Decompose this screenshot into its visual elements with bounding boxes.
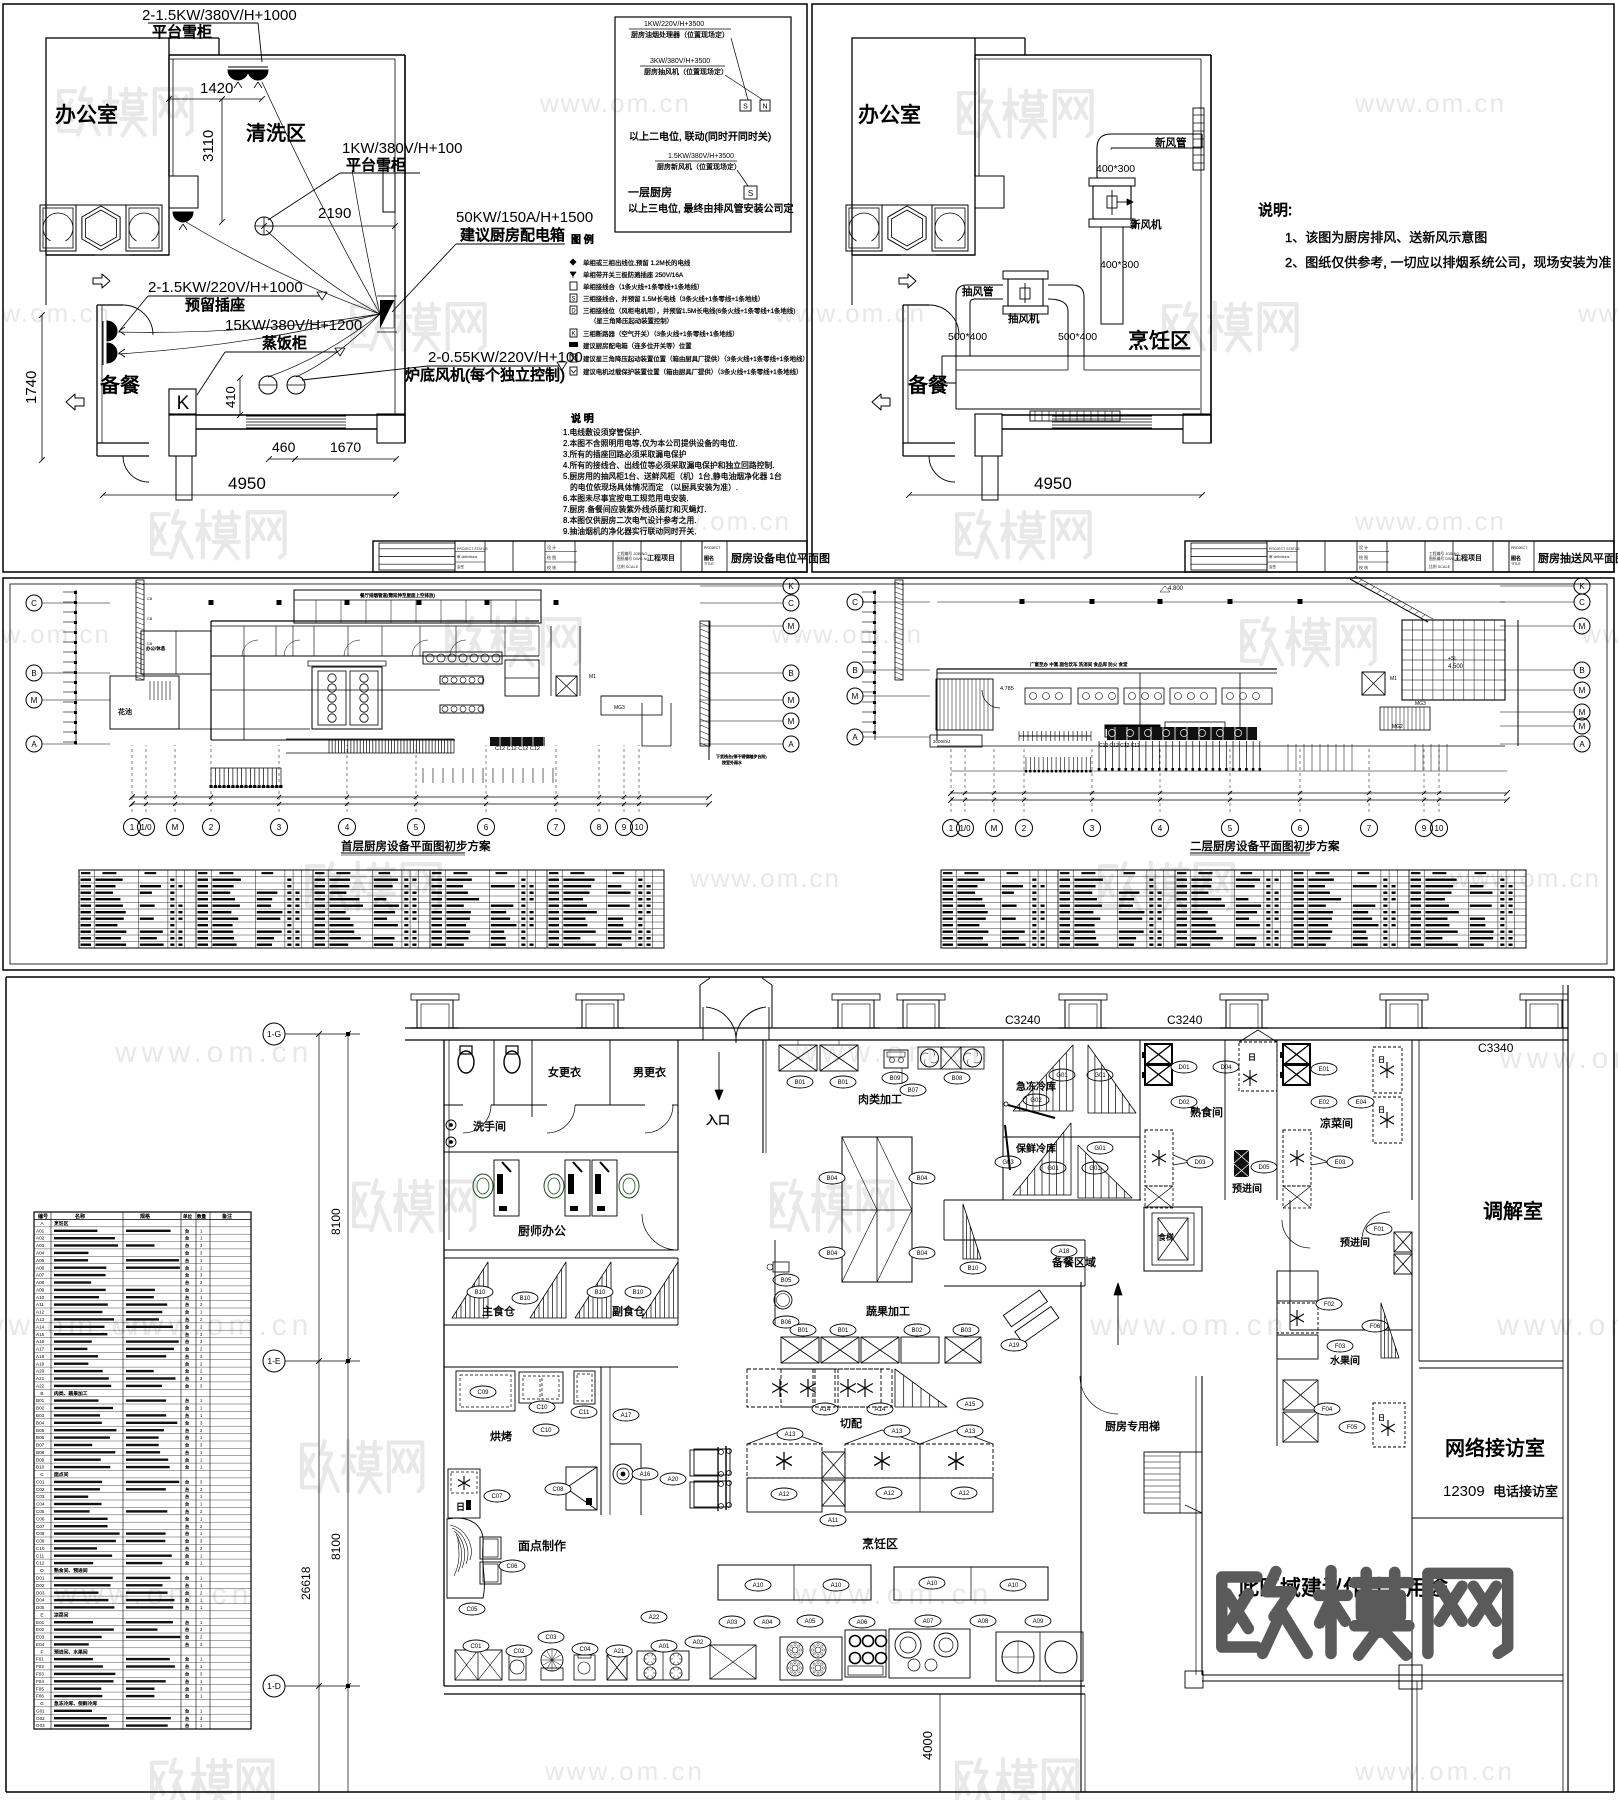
svg-text:厨师办公: 厨师办公	[518, 1223, 566, 1238]
svg-text:4950: 4950	[1034, 474, 1072, 493]
svg-text:A05: A05	[36, 1258, 45, 1263]
svg-text:图纸编号 DWG NO: 图纸编号 DWG NO	[617, 556, 649, 561]
svg-text:B10: B10	[595, 1290, 606, 1296]
svg-text:B04: B04	[917, 1176, 928, 1182]
svg-text:M: M	[31, 696, 38, 705]
svg-text:500*400: 500*400	[948, 331, 987, 343]
svg-text:三相接线合，并预留 1.5M长电线（3条火线+1条零线+1条: 三相接线合，并预留 1.5M长电线（3条火线+1条零线+1条地线）	[583, 294, 764, 303]
svg-text:台: 台	[185, 1309, 189, 1316]
svg-text:M1: M1	[589, 674, 596, 680]
svg-text:TITLE: TITLE	[704, 562, 714, 566]
svg-text:4950: 4950	[228, 474, 266, 493]
svg-text:洗手间: 洗手间	[473, 1119, 506, 1133]
svg-text:一层厨房: 一层厨房	[628, 186, 672, 199]
svg-text:1: 1	[949, 824, 954, 833]
svg-text:台: 台	[185, 1242, 189, 1249]
svg-text:F04: F04	[1322, 1407, 1333, 1413]
svg-text:B: B	[40, 1391, 43, 1397]
svg-text:A20: A20	[668, 1477, 679, 1483]
svg-text:A10: A10	[36, 1295, 45, 1300]
svg-text:台: 台	[185, 1604, 189, 1611]
svg-text:A18: A18	[1059, 1249, 1070, 1255]
svg-text:厨房抽风机（位置现场定）: 厨房抽风机（位置现场定）	[644, 67, 728, 76]
svg-text:首层厨房设备平面图初步方案: 首层厨房设备平面图初步方案	[341, 839, 491, 853]
svg-text:台: 台	[185, 1316, 189, 1323]
svg-text:台: 台	[185, 1331, 189, 1338]
svg-text:K: K	[1579, 582, 1585, 591]
svg-text:www.om.cn: www.om.cn	[1496, 1309, 1618, 1342]
svg-text:烘烤: 烘烤	[490, 1429, 512, 1443]
svg-text:G01: G01	[36, 1708, 45, 1713]
svg-text:凉菜间: 凉菜间	[54, 1611, 69, 1618]
svg-text:备餐区域: 备餐区域	[1052, 1255, 1096, 1269]
svg-text:花池: 花池	[118, 707, 132, 716]
svg-text:日: 日	[1248, 1053, 1256, 1062]
svg-text:www.om.cn: www.om.cn	[1089, 1309, 1288, 1342]
svg-text:2: 2	[209, 823, 214, 832]
svg-text:M: M	[788, 622, 795, 631]
svg-text:B10: B10	[968, 1266, 979, 1272]
svg-text:台: 台	[185, 1493, 189, 1500]
svg-text:C12 C12 C12 C12: C12 C12 C12 C12	[495, 746, 540, 752]
svg-text:G01: G01	[1089, 1166, 1101, 1172]
svg-text:办公/休息: 办公/休息	[146, 645, 166, 652]
svg-text:C10: C10	[540, 1428, 552, 1434]
svg-text:A13: A13	[785, 1432, 796, 1438]
svg-text:台: 台	[185, 1250, 189, 1257]
svg-text:B02: B02	[912, 1328, 923, 1334]
svg-text:A13: A13	[965, 1429, 976, 1435]
svg-text:数量: 数量	[197, 1213, 206, 1220]
svg-text:4.500: 4.500	[1448, 664, 1464, 670]
svg-text:下货栈台(带不锈钢踏步台阶): 下货栈台(带不锈钢踏步台阶)	[716, 753, 767, 759]
svg-text:E04: E04	[36, 1642, 45, 1647]
svg-text:审 definitions: 审 definitions	[457, 554, 477, 559]
svg-text:凉菜间: 凉菜间	[1320, 1116, 1353, 1130]
svg-text:500*400: 500*400	[1058, 331, 1097, 343]
svg-text:A09: A09	[36, 1287, 45, 1292]
svg-text:www.om.cn: www.om.cn	[1354, 506, 1506, 536]
svg-text:3.所有的插座回路必须采取漏电保护: 3.所有的插座回路必须采取漏电保护	[563, 449, 687, 459]
svg-text:B01: B01	[36, 1398, 45, 1403]
svg-text:C08: C08	[552, 1487, 564, 1493]
svg-text:M: M	[1579, 622, 1586, 631]
svg-text:E03: E03	[1335, 1160, 1346, 1166]
svg-text:男更衣: 男更衣	[633, 1065, 666, 1079]
svg-text:S: S	[748, 189, 753, 198]
svg-text:B04: B04	[917, 1251, 928, 1257]
svg-text:台: 台	[185, 1456, 189, 1463]
svg-text:1.5KW/380V/H+3500: 1.5KW/380V/H+3500	[668, 153, 734, 160]
svg-text:A03: A03	[727, 1620, 738, 1626]
svg-text:A14: A14	[36, 1324, 45, 1329]
svg-text:台: 台	[185, 1508, 189, 1515]
svg-text:F03: F03	[1335, 1344, 1346, 1350]
svg-text:A15: A15	[965, 1402, 976, 1408]
svg-text:台: 台	[185, 1286, 189, 1293]
svg-text:F01: F01	[1374, 1227, 1385, 1233]
svg-text:平台雪柜: 平台雪柜	[152, 24, 212, 41]
svg-text:A04: A04	[762, 1620, 773, 1626]
svg-text:MG3: MG3	[614, 705, 625, 711]
svg-text:A07: A07	[923, 1619, 934, 1625]
svg-text:9.抽油烟机的净化器实行联动同时开关.: 9.抽油烟机的净化器实行联动同时开关.	[563, 526, 696, 536]
svg-text:工程项目: 工程项目	[647, 553, 675, 562]
svg-text:C10: C10	[36, 1546, 45, 1551]
svg-text:12309: 12309	[1443, 1483, 1485, 1500]
svg-text:D: D	[40, 1568, 44, 1574]
svg-text:D04: D04	[36, 1598, 45, 1603]
svg-text:台: 台	[185, 1575, 189, 1582]
svg-text:1740: 1740	[23, 371, 40, 404]
svg-text:急冻冷库: 急冻冷库	[1016, 1080, 1056, 1093]
svg-text:会签: 会签	[1269, 564, 1277, 569]
svg-text:预进间: 预进间	[1232, 1182, 1262, 1195]
svg-text:A12: A12	[884, 1491, 895, 1497]
svg-text:B: B	[852, 666, 857, 675]
svg-text:台: 台	[185, 1346, 189, 1353]
svg-text:1.电线敷设须穿管保护.: 1.电线敷设须穿管保护.	[563, 427, 642, 437]
svg-text:1-G: 1-G	[267, 1029, 281, 1039]
svg-text:E04: E04	[1356, 1100, 1367, 1106]
svg-text:F06: F06	[36, 1694, 44, 1699]
svg-text:400*300: 400*300	[1100, 259, 1139, 271]
svg-text:C8: C8	[147, 616, 153, 621]
svg-text:3: 3	[277, 823, 282, 832]
svg-text:G01: G01	[1094, 1146, 1106, 1152]
svg-text:C09: C09	[477, 1390, 489, 1396]
svg-text:C01: C01	[470, 1644, 482, 1650]
svg-text:5: 5	[1228, 824, 1233, 833]
svg-text:4.800: 4.800	[1168, 586, 1184, 592]
svg-text:7: 7	[554, 823, 559, 832]
svg-text:M: M	[788, 717, 795, 726]
svg-text:D03: D03	[36, 1590, 45, 1595]
svg-text:F02: F02	[1324, 1302, 1335, 1308]
svg-text:7.厨房.备餐间应装紫外线杀菌灯和灭蝇灯.: 7.厨房.备餐间应装紫外线杀菌灯和灭蝇灯.	[563, 504, 706, 514]
svg-text:E03: E03	[36, 1635, 45, 1640]
svg-text:K: K	[571, 332, 575, 338]
svg-text:厨房专用梯: 厨房专用梯	[1105, 1419, 1160, 1433]
svg-text:D01: D01	[1178, 1065, 1190, 1071]
svg-text:D: D	[571, 309, 576, 315]
svg-text:400*300: 400*300	[1096, 163, 1135, 175]
svg-text:1420: 1420	[200, 80, 233, 97]
svg-text:台: 台	[185, 1663, 189, 1670]
svg-text:台: 台	[185, 1434, 189, 1441]
svg-text:C06: C06	[506, 1564, 518, 1570]
svg-text:B06: B06	[781, 1320, 792, 1326]
svg-text:A06: A06	[857, 1620, 868, 1626]
svg-text:绘 图: 绘 图	[547, 554, 556, 560]
svg-text:以上三电位, 最终由排风管安装公司定: 以上三电位, 最终由排风管安装公司定	[628, 202, 794, 215]
svg-text:名称: 名称	[75, 1213, 85, 1220]
svg-text:B10: B10	[633, 1290, 644, 1296]
svg-text:G: G	[40, 1701, 44, 1707]
svg-text:A: A	[1579, 740, 1585, 749]
svg-text:A11: A11	[828, 1518, 839, 1524]
svg-text:B03: B03	[36, 1413, 45, 1418]
svg-text:建议厨房配电箱（连多位开关等）位置: 建议厨房配电箱（连多位开关等）位置	[583, 341, 692, 350]
svg-text:台: 台	[185, 1383, 189, 1390]
svg-text:M: M	[1579, 722, 1586, 731]
svg-text:E01: E01	[36, 1620, 45, 1625]
svg-text:B07: B07	[36, 1443, 45, 1448]
svg-text:台: 台	[185, 1301, 189, 1308]
svg-text:F: F	[41, 1649, 44, 1655]
svg-text:台: 台	[185, 1264, 189, 1271]
svg-text:A06: A06	[36, 1265, 45, 1270]
svg-text:7: 7	[1367, 824, 1372, 833]
svg-text:炉底风机(每个独立控制): 炉底风机(每个独立控制)	[405, 367, 565, 384]
svg-text:D02: D02	[36, 1583, 45, 1588]
svg-text:G03: G03	[36, 1723, 45, 1728]
svg-text:切配: 切配	[840, 1417, 862, 1430]
svg-text:www.om.cn: www.om.cn	[1577, 298, 1618, 328]
svg-text:C02: C02	[36, 1487, 45, 1492]
svg-text:A13: A13	[892, 1429, 903, 1435]
svg-text:www.om.cn: www.om.cn	[1499, 1042, 1618, 1075]
svg-text:B01: B01	[838, 1080, 849, 1086]
svg-text:台: 台	[185, 1375, 189, 1382]
svg-text:台: 台	[185, 1678, 189, 1685]
svg-text:C02: C02	[513, 1649, 525, 1655]
svg-text:单相或三相出线位,预留 1.2M长的电线: 单相或三相出线位,预留 1.2M长的电线	[583, 258, 691, 267]
svg-text:C10: C10	[536, 1405, 548, 1411]
svg-text:D05: D05	[36, 1605, 45, 1610]
svg-text:S: S	[571, 297, 575, 303]
svg-text:2-0.55KW/220V/H+100: 2-0.55KW/220V/H+100	[428, 349, 583, 366]
svg-text:B04: B04	[827, 1251, 838, 1257]
svg-text:台: 台	[185, 1634, 189, 1641]
svg-text:B10: B10	[475, 1290, 486, 1296]
svg-text:C03: C03	[36, 1494, 45, 1499]
svg-text:副食仓: 副食仓	[612, 1304, 645, 1318]
svg-text:6.本图未尽事宜按电工规范用电安装.: 6.本图未尽事宜按电工规范用电安装.	[563, 493, 689, 503]
svg-text:F05: F05	[36, 1686, 44, 1691]
svg-text:工程项目: 工程项目	[1454, 553, 1482, 562]
svg-text:C06: C06	[36, 1516, 45, 1521]
svg-text:G02: G02	[1030, 1098, 1042, 1104]
svg-text:C11: C11	[579, 1410, 590, 1416]
svg-text:A13: A13	[36, 1317, 45, 1322]
svg-text:D03: D03	[1194, 1160, 1206, 1166]
svg-text:台: 台	[185, 1715, 189, 1722]
svg-text:以上二电位, 联动(同时开同时关): 以上二电位, 联动(同时开同时关)	[629, 130, 771, 143]
svg-text:1/0: 1/0	[959, 824, 971, 833]
svg-text:预进间: 预进间	[1340, 1236, 1370, 1249]
svg-text:B09: B09	[36, 1457, 45, 1462]
svg-text:A20: A20	[36, 1369, 45, 1374]
svg-text:建议电机过载保护装置位置（箱由厨具厂提供）（3条火线+1条零: 建议电机过载保护装置位置（箱由厨具厂提供）（3条火线+1条零线+1条地线）	[583, 367, 802, 376]
svg-text:PROJECT STATUS: PROJECT STATUS	[457, 547, 488, 551]
svg-text:E02: E02	[1319, 1100, 1330, 1106]
svg-text:A10: A10	[927, 1581, 938, 1587]
svg-text:规格: 规格	[140, 1213, 150, 1220]
svg-text:C08: C08	[36, 1531, 45, 1536]
svg-text:A14: A14	[875, 1407, 886, 1413]
svg-text:预进间、水果间: 预进间、水果间	[54, 1648, 88, 1655]
svg-text:B04: B04	[827, 1176, 838, 1182]
svg-text:A21: A21	[36, 1376, 45, 1381]
svg-text:备注: 备注	[222, 1213, 232, 1220]
svg-text:台: 台	[185, 1597, 189, 1604]
svg-text:N: N	[762, 104, 767, 111]
svg-text:MG2: MG2	[1392, 724, 1403, 730]
svg-text:1670: 1670	[330, 439, 361, 455]
svg-text:预留插座: 预留插座	[185, 297, 245, 314]
svg-text:A17: A17	[621, 1413, 632, 1419]
svg-text:熟食间、预进间: 熟食间、预进间	[54, 1567, 88, 1574]
svg-text:清洗区: 清洗区	[246, 122, 306, 145]
svg-text:三相断路器（空气开关）（3条火线+1条零线+1条地线）: 三相断路器（空气开关）（3条火线+1条零线+1条地线）	[583, 329, 739, 338]
svg-text:C09: C09	[36, 1539, 45, 1544]
svg-text:5.厨房用的抽风柜1台、送鲜风柜（机）1台,静电油烟净化器: 5.厨房用的抽风柜1台、送鲜风柜（机）1台,静电油烟净化器 1台	[563, 471, 782, 481]
svg-text:C04: C04	[579, 1647, 591, 1653]
svg-text:A18: A18	[36, 1354, 45, 1359]
svg-text:MG3: MG3	[1415, 701, 1426, 707]
svg-text:+SL: +SL	[1448, 656, 1457, 662]
svg-text:A10: A10	[831, 1583, 842, 1589]
svg-text:调解室: 调解室	[1483, 1200, 1543, 1223]
svg-text:急冻冷库、保鲜冷库: 急冻冷库、保鲜冷库	[54, 1700, 97, 1707]
svg-text:8.本图仅供厨房二次电气设计参考之用.: 8.本图仅供厨房二次电气设计参考之用.	[563, 515, 696, 525]
svg-text:台: 台	[185, 1412, 189, 1419]
svg-text:C: C	[788, 599, 794, 608]
svg-text:M: M	[172, 823, 179, 832]
svg-text:F04: F04	[36, 1679, 44, 1684]
svg-text:A07: A07	[36, 1273, 45, 1278]
svg-text:10: 10	[635, 823, 644, 832]
svg-text:A21: A21	[614, 1649, 625, 1655]
svg-text:台: 台	[185, 1464, 189, 1471]
svg-text:B: B	[31, 669, 36, 678]
svg-text:台: 台	[185, 1427, 189, 1434]
svg-text:B07: B07	[908, 1088, 919, 1094]
svg-text:5: 5	[414, 823, 419, 832]
svg-text:台: 台	[185, 1368, 189, 1375]
svg-text:单位: 单位	[183, 1213, 192, 1220]
svg-text:图名: 图名	[1511, 555, 1521, 562]
svg-text:台: 台	[185, 1449, 189, 1456]
svg-text:入口: 入口	[706, 1113, 730, 1127]
svg-text:A12: A12	[779, 1492, 790, 1498]
svg-text:B03: B03	[961, 1328, 972, 1334]
svg-text:设 计: 设 计	[1359, 544, 1368, 550]
svg-text:台: 台	[185, 1272, 189, 1279]
svg-text:B10: B10	[36, 1465, 45, 1470]
svg-text:单相带开关三极防溅插座 250V/16A: 单相带开关三极防溅插座 250V/16A	[583, 270, 684, 279]
svg-text:A: A	[852, 733, 858, 742]
svg-text:A05: A05	[805, 1619, 816, 1625]
svg-text:会签: 会签	[457, 564, 465, 569]
svg-text:6: 6	[484, 823, 489, 832]
svg-text:A19: A19	[1009, 1343, 1020, 1349]
svg-text:A15: A15	[36, 1332, 45, 1337]
svg-text:台: 台	[185, 1656, 189, 1663]
svg-text:台: 台	[185, 1552, 189, 1559]
svg-text:9: 9	[622, 823, 627, 832]
svg-text:台: 台	[185, 1619, 189, 1626]
svg-text:比例 SCALE: 比例 SCALE	[1429, 564, 1451, 569]
svg-text:台: 台	[185, 1419, 189, 1426]
svg-text:M1: M1	[1390, 676, 1397, 682]
svg-text:A01: A01	[659, 1644, 670, 1650]
svg-text:A16: A16	[36, 1339, 45, 1344]
svg-text:平台雪柜: 平台雪柜	[346, 157, 406, 174]
svg-text:B04: B04	[36, 1420, 45, 1425]
svg-text:A02: A02	[693, 1640, 704, 1646]
svg-text:B08: B08	[36, 1450, 45, 1455]
svg-text:C: C	[1579, 598, 1585, 607]
svg-text:M: M	[991, 824, 998, 833]
svg-text:C05: C05	[36, 1509, 45, 1514]
svg-text:建议厨房配电箱: 建议厨房配电箱	[460, 227, 565, 244]
svg-text:1-E: 1-E	[267, 1356, 281, 1366]
svg-text:C11: C11	[36, 1553, 45, 1558]
svg-text:15KW/380V/H+1200: 15KW/380V/H+1200	[225, 317, 362, 334]
svg-text:台: 台	[185, 1257, 189, 1264]
svg-text:A19: A19	[36, 1361, 45, 1366]
svg-text:熟食间: 熟食间	[1190, 1105, 1223, 1119]
svg-text:M: M	[1579, 686, 1586, 695]
svg-text:A08: A08	[36, 1280, 45, 1285]
svg-text:台: 台	[185, 1722, 189, 1729]
svg-text:3: 3	[1090, 824, 1095, 833]
svg-text:台: 台	[185, 1671, 189, 1678]
svg-text:按室外雨水: 按室外雨水	[722, 759, 742, 765]
svg-text:台: 台	[185, 1582, 189, 1589]
svg-text:C12: C12	[36, 1561, 45, 1566]
svg-text:F05: F05	[1347, 1425, 1358, 1431]
svg-text:A04: A04	[36, 1251, 45, 1256]
svg-text:图 例: 图 例	[571, 233, 594, 246]
svg-text:2000/0/J: 2000/0/J	[933, 739, 950, 744]
svg-text:A: A	[788, 740, 794, 749]
svg-text:台: 台	[185, 1589, 189, 1596]
svg-text:C3240: C3240	[1167, 1013, 1203, 1027]
svg-text:厨房抽送风平面图: 厨房抽送风平面图	[1538, 551, 1618, 565]
svg-text:烹饪区: 烹饪区	[1128, 330, 1191, 353]
svg-text:厨房油烟处理器（位置现场定）: 厨房油烟处理器（位置现场定）	[631, 30, 729, 39]
svg-text:1/0: 1/0	[140, 823, 152, 832]
svg-text:B02: B02	[36, 1406, 45, 1411]
svg-text:4: 4	[345, 823, 350, 832]
svg-text:B05: B05	[781, 1278, 792, 1284]
svg-text:A14: A14	[820, 1407, 831, 1413]
svg-text:台: 台	[185, 1405, 189, 1412]
svg-text:PROJECT: PROJECT	[1511, 546, 1528, 550]
svg-text:A22: A22	[36, 1384, 45, 1389]
svg-text:www.om.cn: www.om.cn	[1354, 88, 1506, 118]
svg-text:台: 台	[185, 1685, 189, 1692]
svg-text:新风机: 新风机	[1130, 218, 1162, 231]
svg-text:抽风管: 抽风管	[962, 285, 994, 298]
svg-text:1-D: 1-D	[267, 1681, 281, 1691]
svg-text:（星三角降压起动装置控制）: （星三角降压起动装置控制）	[590, 316, 673, 325]
svg-text:G01: G01	[1094, 1073, 1106, 1079]
svg-text:台: 台	[185, 1545, 189, 1552]
svg-text:8100: 8100	[329, 1533, 343, 1560]
svg-text:台: 台	[185, 1486, 189, 1493]
svg-text:二层厨房设备平面图初步方案: 二层厨房设备平面图初步方案	[1190, 839, 1340, 853]
svg-text:水果间: 水果间	[1330, 1354, 1360, 1367]
svg-text:台: 台	[185, 1626, 189, 1633]
svg-text:B08: B08	[952, 1076, 963, 1082]
svg-text:www.om.cn: www.om.cn	[0, 298, 111, 328]
svg-text:审 definitions: 审 definitions	[1269, 554, 1289, 559]
svg-text:www.om.cn: www.om.cn	[689, 863, 841, 893]
